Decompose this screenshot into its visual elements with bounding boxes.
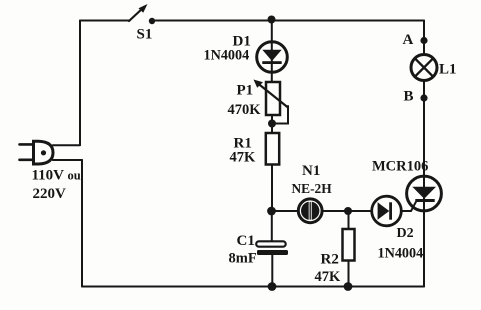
diode D1 bbox=[257, 42, 288, 73]
svg-text:L1: L1 bbox=[439, 62, 457, 78]
svg-text:8mF: 8mF bbox=[229, 251, 257, 267]
bottom rail wire bbox=[82, 286, 424, 288]
wire middle branch vertical (top rail to D1, through D1, to P1) bbox=[271, 21, 273, 83]
svg-text:N1: N1 bbox=[302, 163, 320, 179]
svg-text:47K: 47K bbox=[315, 269, 342, 285]
node junction at N1 line left bbox=[267, 207, 276, 216]
resistor R1 bbox=[266, 133, 279, 165]
diode D2 bbox=[372, 196, 402, 226]
svg-text:NE-2H: NE-2H bbox=[292, 181, 333, 196]
switch S1 bbox=[129, 4, 155, 24]
wire node down to R2 bbox=[348, 211, 350, 229]
svg-text:110V ou: 110V ou bbox=[32, 168, 81, 184]
capacitor C1 bbox=[256, 211, 288, 287]
svg-text:S1: S1 bbox=[137, 27, 153, 43]
wire plug bottom to lower left rail bbox=[53, 159, 82, 161]
node junction at R2 top bbox=[344, 207, 352, 215]
wire R2 bottom to bottom rail bbox=[348, 261, 350, 287]
wire P1 wiper to lower terminal bbox=[272, 106, 288, 124]
potentiometer P1 bbox=[254, 80, 289, 116]
wire right rail bbox=[423, 21, 425, 287]
resistor R2 bbox=[343, 229, 355, 261]
svg-text:1N4004: 1N4004 bbox=[378, 246, 424, 262]
wire R1 bottom to node bbox=[271, 165, 273, 212]
svg-text:47K: 47K bbox=[230, 150, 257, 166]
svg-text:P1: P1 bbox=[237, 83, 254, 99]
wire left rail upper bbox=[79, 21, 81, 146]
node A bbox=[420, 37, 427, 44]
node B bbox=[420, 94, 427, 101]
wire top rail right segment bbox=[156, 20, 425, 22]
svg-text:470K: 470K bbox=[228, 102, 262, 118]
wire P1 bottom to R1 top bbox=[271, 115, 273, 133]
svg-text:A: A bbox=[403, 32, 414, 48]
node junction R2 at bottom rail bbox=[344, 282, 353, 291]
node junction C1 at bottom rail bbox=[268, 282, 277, 291]
svg-text:D2: D2 bbox=[397, 226, 414, 241]
svg-text:MCR106: MCR106 bbox=[372, 159, 428, 175]
neon lamp N1 bbox=[298, 199, 322, 223]
wire D2 to SCR gate bbox=[401, 201, 416, 211]
node junction at D1 top bbox=[268, 16, 276, 24]
svg-text:220V: 220V bbox=[33, 186, 67, 202]
svg-text:B: B bbox=[404, 89, 414, 105]
svg-text:1N4004: 1N4004 bbox=[204, 48, 250, 64]
wire left rail lower bbox=[81, 160, 83, 287]
lamp L1 bbox=[411, 55, 437, 81]
svg-text:C1: C1 bbox=[237, 233, 255, 249]
node junction below P1 bbox=[268, 120, 276, 128]
thyristor U1 MCR106 bbox=[407, 176, 442, 211]
wire node to neon lamp N1 bbox=[272, 210, 299, 212]
wire plug top to left rail bbox=[53, 144, 80, 146]
svg-text:R2: R2 bbox=[321, 252, 339, 268]
plug 110/220V bbox=[20, 141, 54, 164]
wire top rail left segment bbox=[80, 20, 129, 22]
wire N1 to node bbox=[322, 210, 371, 212]
